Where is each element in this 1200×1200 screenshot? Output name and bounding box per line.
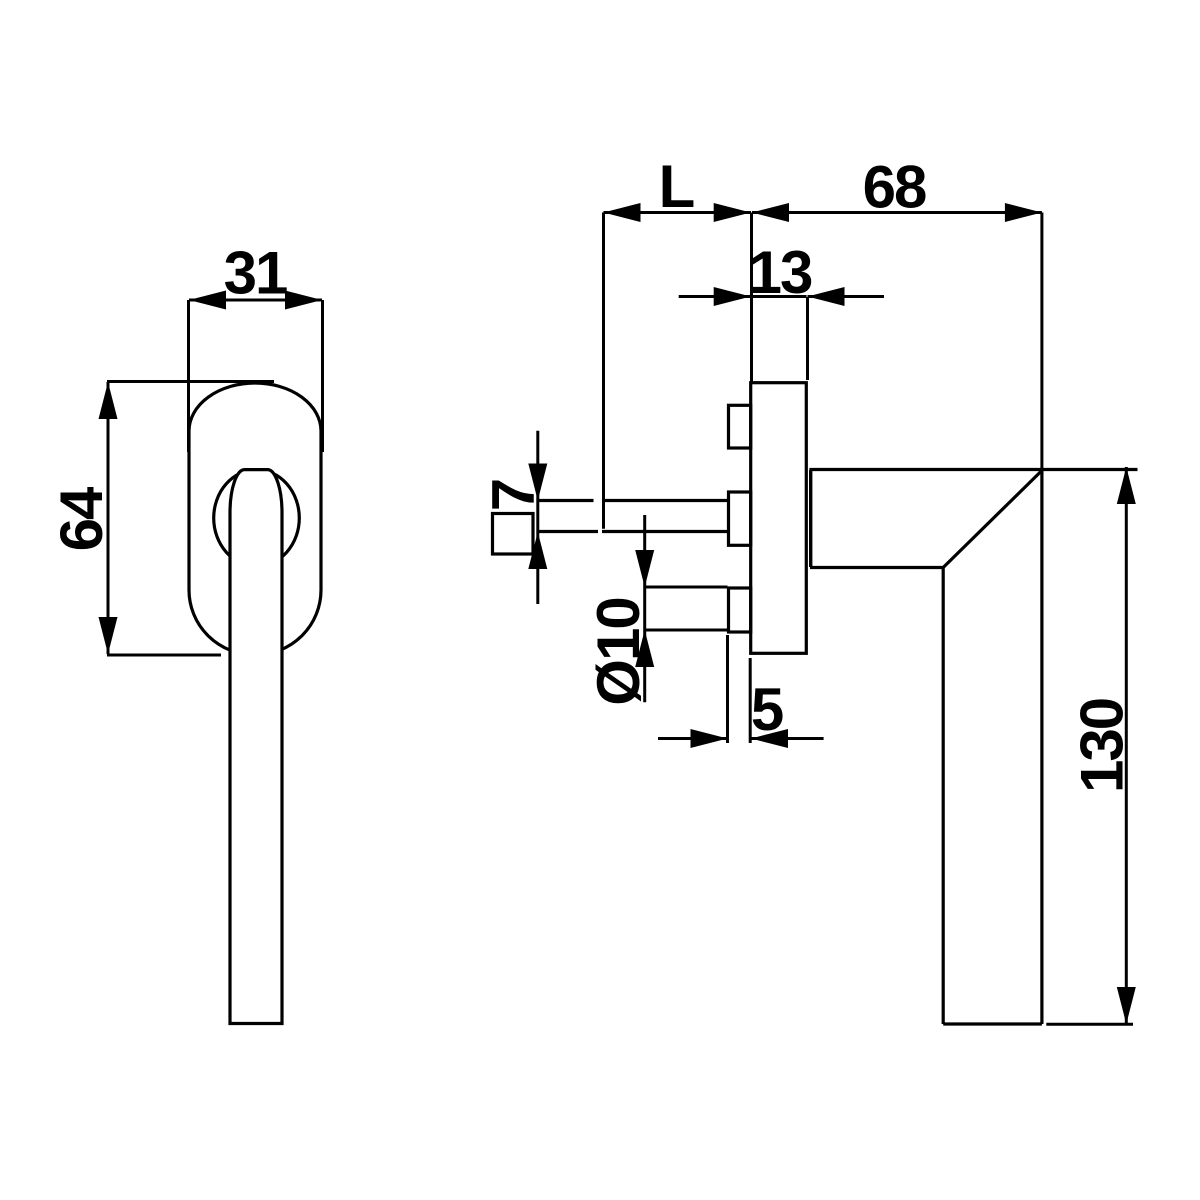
dimension 5 arrow right (pointing left) [751, 729, 788, 748]
dimension 31 arrow right [285, 291, 322, 310]
dimension 7 arrow top (pointing down) [528, 464, 547, 501]
dimension L and 68 shared extension line / rosette face line [750, 213, 753, 383]
mounting pin bottom (side view) [729, 588, 751, 632]
dimension 68 extension line right [1040, 213, 1043, 470]
svg-text:7: 7 [480, 480, 547, 511]
dimension 5 left tail line [658, 737, 728, 740]
dimension 13 middle segment [752, 295, 807, 298]
dimension L arrow right [714, 203, 751, 222]
svg-text:68: 68 [863, 154, 926, 221]
handle grip bottom edge (side view) [943, 1022, 1042, 1025]
rosette plate side view [751, 383, 807, 654]
svg-text:13: 13 [749, 239, 812, 306]
dimension 5 arrow left (pointing right) [691, 729, 728, 748]
spindle bar bottom edge [537, 530, 728, 533]
handle neck bottom edge (side view) [810, 566, 944, 569]
dimension 13 left tail line [679, 295, 751, 298]
svg-text:130: 130 [1069, 699, 1136, 793]
dimension 13 right tail line [808, 295, 885, 298]
dimension D10 arrow top (pointing down) [635, 550, 654, 587]
dimension D10 extension line top [645, 586, 728, 589]
dimension 5 extension line left [726, 635, 729, 743]
svg-text:5: 5 [751, 676, 783, 743]
dimension D10 extension line bottom [645, 629, 728, 632]
dimension 31 extension line left [187, 300, 190, 452]
dimension L line [604, 211, 752, 214]
dimension L arrow left [604, 203, 641, 222]
spindle bar top edge [537, 499, 728, 502]
dimension L extension line left [602, 213, 605, 529]
spindle boss middle (side view) [729, 492, 751, 545]
dimension 13 arrow right (pointing left) [808, 287, 845, 306]
dimension 7 line [536, 431, 539, 604]
svg-text:L: L [659, 153, 694, 220]
rosette hole circle (front view) [214, 470, 300, 567]
svg-text:Ø10: Ø10 [585, 598, 652, 705]
handle neck left face (side view) [809, 470, 812, 567]
svg-text:64: 64 [48, 486, 115, 551]
dimension 68 arrow left [752, 203, 789, 222]
handle grip left edge (side view) [942, 567, 945, 1024]
dimension 13 arrow left (pointing right) [714, 287, 751, 306]
handle bend diagonal (side view) [944, 471, 1042, 568]
dimension 68 line [752, 211, 1042, 214]
dimension 31 extension line right [321, 300, 324, 452]
handle grip right edge (side view) [1040, 470, 1043, 1024]
dimension 31 line [189, 299, 322, 302]
handle neck top edge (side view, with 130 extension) [809, 468, 1137, 471]
dimension 130 arrow top (pointing up) [1117, 467, 1136, 504]
dimension 7 arrow bottom (pointing up) [528, 532, 547, 569]
dimension 5 extension line right [749, 658, 752, 743]
spindle line gaps at extension crossing [594, 498, 603, 503]
dimension 130 extension line bottom [1046, 1023, 1133, 1026]
dimension 64 extension line bottom [107, 654, 221, 657]
spindle square end symbol [493, 514, 534, 555]
dimension 64 line [107, 382, 110, 654]
dimension 64 extension line top [107, 380, 274, 383]
dimension D10 arrow bottom (pointing up) [635, 630, 654, 667]
dimension 64 arrow top [99, 382, 118, 419]
svg-text:31: 31 [224, 240, 287, 307]
dimension 64 arrow bottom [99, 617, 118, 654]
dimension 13 extension line right [806, 297, 809, 380]
rosette plate front view (stadium outline) [189, 383, 321, 655]
dimension 5 right tail line [751, 737, 824, 740]
dimension 68 arrow right [1005, 203, 1042, 222]
mounting pin top (side view) [729, 405, 751, 448]
handle grip front view (white filled, rounded top) [230, 470, 282, 1024]
dimension D10 line [643, 515, 646, 702]
dimension 130 arrow bottom (pointing down) [1117, 987, 1136, 1024]
dimension 130 line [1125, 467, 1128, 1024]
dimension 31 arrow left [189, 291, 226, 310]
